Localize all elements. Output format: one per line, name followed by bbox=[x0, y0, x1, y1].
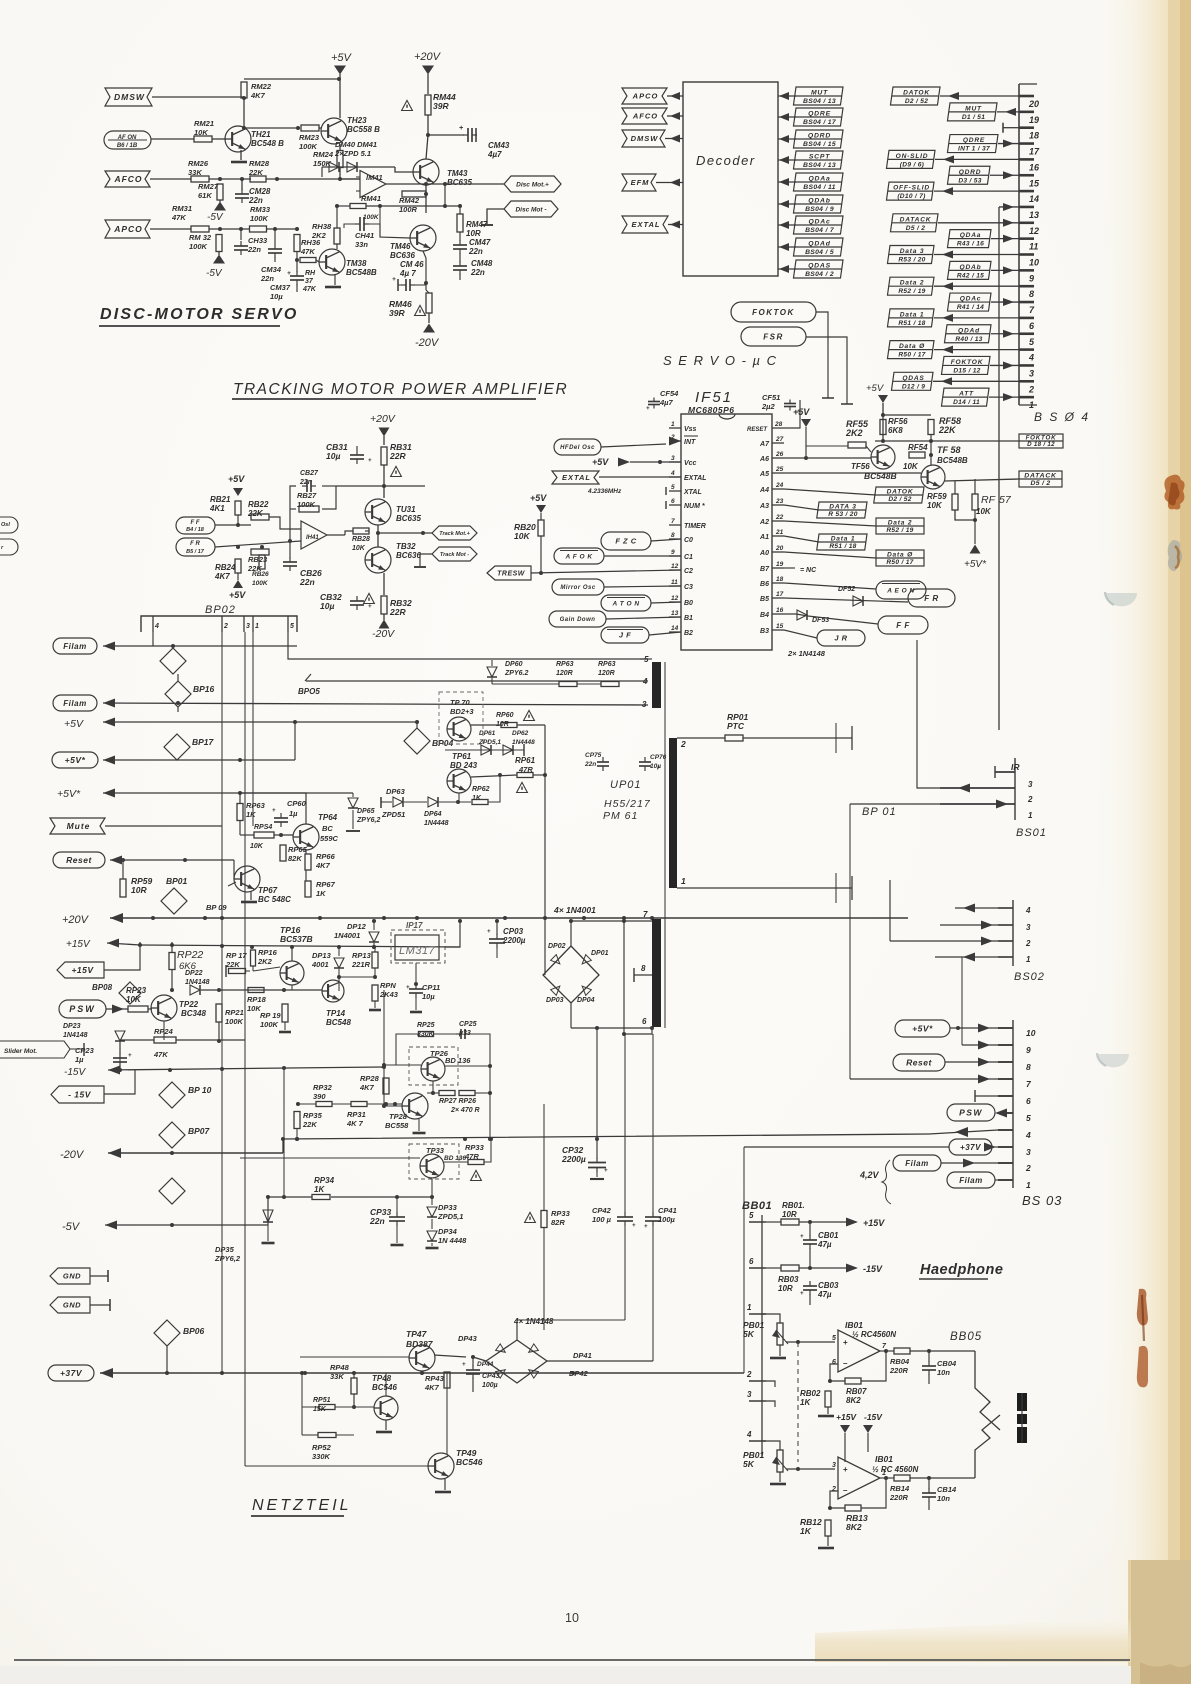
svg-text:2: 2 bbox=[223, 623, 228, 630]
svg-text:19: 19 bbox=[1029, 115, 1039, 125]
svg-text:+: + bbox=[487, 929, 491, 935]
svg-text:100K: 100K bbox=[297, 500, 316, 509]
wire decoder to QDAa bbox=[778, 181, 796, 183]
svg-text:RB14: RB14 bbox=[890, 1484, 910, 1493]
svg-text:DP12: DP12 bbox=[347, 922, 367, 931]
punch hole shadow upper bbox=[1106, 593, 1137, 606]
svg-text:BC636: BC636 bbox=[390, 251, 415, 260]
svg-text:B2: B2 bbox=[684, 630, 693, 637]
svg-text:+15V: +15V bbox=[836, 1412, 857, 1422]
svg-text:12: 12 bbox=[671, 563, 679, 570]
svg-text:1: 1 bbox=[1026, 955, 1031, 964]
wire DMSW to decoder bbox=[665, 138, 683, 140]
wires RF59 RF57 bbox=[954, 481, 956, 494]
svg-text:10K: 10K bbox=[976, 507, 992, 516]
svg-text:DATOK: DATOK bbox=[903, 90, 930, 97]
svg-text:TRESW: TRESW bbox=[497, 571, 526, 578]
svg-text:RM26: RM26 bbox=[188, 159, 209, 168]
svg-text:2K43: 2K43 bbox=[379, 990, 399, 999]
diode DP22 bbox=[190, 985, 200, 995]
opamp IB01 lower bbox=[838, 1457, 880, 1499]
svg-text:Filam: Filam bbox=[63, 642, 86, 651]
capacitor CM37 bbox=[290, 275, 304, 277]
svg-text:+5V: +5V bbox=[866, 383, 885, 394]
svg-text:47K: 47K bbox=[153, 1050, 168, 1059]
svg-text:1N4148: 1N4148 bbox=[185, 979, 210, 986]
label ATT D14 / 11 (BS04 pin) bbox=[941, 388, 989, 406]
svg-text:PM 61: PM 61 bbox=[603, 810, 638, 822]
svg-text:BP16: BP16 bbox=[193, 684, 215, 694]
svg-text:3: 3 bbox=[1028, 780, 1033, 789]
label QDAc R41 / 14 (BS04 pin) bbox=[947, 293, 991, 311]
resistor RM33 bbox=[250, 226, 267, 232]
svg-text:RB24: RB24 bbox=[215, 563, 236, 572]
svg-text:CF54: CF54 bbox=[660, 389, 679, 398]
svg-text:Decoder: Decoder bbox=[696, 153, 756, 168]
wire pin9 feeder bbox=[962, 1044, 998, 1046]
wire MUT to BS04 bbox=[997, 111, 1019, 113]
resistor RM23 bbox=[301, 125, 319, 131]
svg-text:BC635: BC635 bbox=[396, 514, 421, 523]
pin 6 NUM * IF51 bbox=[669, 504, 681, 506]
svg-text:33n: 33n bbox=[355, 240, 368, 249]
resistor RF55 bbox=[848, 442, 866, 448]
wire B6 to AEON bbox=[784, 583, 876, 589]
svg-text:2× 470 R: 2× 470 R bbox=[450, 1107, 480, 1114]
svg-text:C1: C1 bbox=[684, 554, 693, 561]
capacitor CP43 bbox=[466, 1369, 480, 1371]
svg-text:BC546: BC546 bbox=[372, 1383, 397, 1392]
pin B7 NC bbox=[784, 567, 795, 569]
flag +15V boxed bbox=[57, 962, 104, 978]
resistor RP52 bbox=[318, 1433, 336, 1438]
svg-text:RP22: RP22 bbox=[177, 949, 203, 961]
svg-text:4µ7: 4µ7 bbox=[487, 150, 502, 159]
svg-text:2: 2 bbox=[1025, 939, 1031, 948]
wire bridge top right loop bbox=[517, 1319, 625, 1321]
resistor RP19 bbox=[282, 1004, 288, 1022]
resistor RB12 bbox=[825, 1520, 831, 1536]
flag Disc Mot+ bbox=[504, 176, 561, 192]
wire PSW arrow bbox=[995, 1109, 1007, 1118]
svg-text:BC537B: BC537B bbox=[280, 934, 313, 944]
ground TP48 bbox=[385, 1420, 387, 1430]
label SCPT BS04 / 13 (decoder output) bbox=[793, 151, 843, 169]
svg-text:BP 09: BP 09 bbox=[206, 903, 227, 912]
wire BP02 pin2 down to +37V rail bbox=[221, 632, 223, 1373]
resistor RF58 bbox=[928, 420, 934, 435]
svg-text:RB02: RB02 bbox=[800, 1389, 821, 1398]
resistor RF59 bbox=[952, 494, 958, 510]
wire B4 to FF bbox=[784, 614, 878, 624]
svg-text:A6: A6 bbox=[759, 456, 769, 463]
svg-text:RP67: RP67 bbox=[316, 880, 336, 889]
transistor TP16 collector wire bbox=[291, 985, 293, 990]
svg-text:MC6805P6: MC6805P6 bbox=[688, 405, 735, 415]
svg-text:IF51: IF51 bbox=[695, 389, 733, 406]
tape residue upper bbox=[1164, 475, 1184, 510]
wire GND2 tie bbox=[90, 1304, 110, 1306]
transistor TP47 bbox=[409, 1345, 435, 1371]
power -20V (disc servo) bbox=[428, 313, 430, 323]
svg-text:BC636: BC636 bbox=[396, 551, 421, 560]
svg-text:TM43: TM43 bbox=[447, 169, 468, 178]
resistor RB14 bbox=[894, 1475, 910, 1481]
wire RM23 to TH23 base bbox=[319, 127, 321, 129]
svg-text:19: 19 bbox=[776, 561, 784, 568]
bottom scanner strip bbox=[0, 1666, 1191, 1684]
svg-text:4001: 4001 bbox=[311, 960, 329, 969]
wire +5V* row bbox=[103, 756, 115, 765]
svg-text:-5V: -5V bbox=[206, 268, 223, 279]
resistor RB21 bbox=[235, 501, 241, 515]
svg-text:1K: 1K bbox=[314, 1185, 325, 1194]
svg-text:6: 6 bbox=[1026, 1096, 1031, 1106]
svg-text:–: – bbox=[843, 1486, 848, 1495]
svg-text:RP51: RP51 bbox=[313, 1397, 331, 1404]
resistor RP61 bbox=[517, 773, 533, 778]
svg-text:CB03: CB03 bbox=[818, 1281, 839, 1290]
svg-text:7: 7 bbox=[671, 518, 675, 525]
capacitor CP33 bbox=[389, 1216, 405, 1218]
wire verticals right mid bbox=[889, 830, 891, 880]
svg-text:+5V*: +5V* bbox=[912, 1024, 933, 1034]
svg-text:2K2: 2K2 bbox=[311, 231, 327, 240]
resistor RP14 bbox=[372, 985, 378, 1001]
svg-text:4K7: 4K7 bbox=[424, 1383, 440, 1392]
wire opamp upper out bbox=[880, 1350, 894, 1352]
svg-text:4K7: 4K7 bbox=[250, 91, 266, 100]
wire AFCO rail bbox=[150, 178, 191, 180]
resistor RP34 bbox=[312, 1195, 330, 1200]
transistor TB32 bbox=[365, 547, 391, 573]
svg-text:RP63: RP63 bbox=[598, 661, 616, 668]
wire BS01 pin1 feeder bbox=[850, 803, 940, 805]
label MUT BS04 / 13 (decoder output) bbox=[793, 87, 843, 105]
svg-text:220R: 220R bbox=[889, 1366, 909, 1375]
svg-text:QDRE: QDRE bbox=[963, 137, 985, 144]
wire TP67 collector bbox=[222, 826, 247, 867]
label DATA3 R53/20 bbox=[817, 502, 867, 518]
wire to Disc Mot+ bbox=[445, 183, 504, 185]
pin 11 C3 IF51 bbox=[669, 585, 681, 587]
svg-text:B5: B5 bbox=[760, 596, 769, 603]
wire TP33 base bbox=[240, 1157, 420, 1159]
svg-text:R52 / 19: R52 / 19 bbox=[886, 527, 913, 534]
resistor RB22 bbox=[251, 514, 269, 520]
svg-text:Mute: Mute bbox=[67, 821, 91, 831]
pin 23 A3 IF51 bbox=[772, 504, 784, 506]
pin 6 BS03 bbox=[998, 1095, 1013, 1097]
capacitor CB14 bbox=[922, 1492, 936, 1494]
wire HFDel to INT bbox=[601, 444, 666, 447]
wire opamp out to motor node bbox=[386, 183, 445, 185]
svg-text:+5V*: +5V* bbox=[964, 559, 987, 570]
wire EXTAL pin bbox=[599, 476, 681, 478]
wire TF56 base from A6 bbox=[784, 457, 871, 459]
label Data0 R50/17 bbox=[876, 550, 924, 566]
svg-text:BS02: BS02 bbox=[1014, 971, 1045, 983]
label QDAb BS04 / 9 (decoder output) bbox=[793, 195, 843, 213]
ground TH21 emitter bbox=[240, 150, 242, 160]
resistor RP33 47R bbox=[468, 1160, 484, 1165]
svg-text:14: 14 bbox=[671, 625, 679, 632]
svg-text:100K: 100K bbox=[189, 242, 208, 251]
wire RF55 to base rail bbox=[806, 445, 848, 447]
svg-text:BP07: BP07 bbox=[188, 1126, 211, 1136]
pin 3 BS01 bbox=[995, 771, 1015, 773]
wire diode row to TM43 base bbox=[395, 167, 413, 172]
svg-text:2: 2 bbox=[831, 1486, 836, 1493]
pin 2 BS04 bbox=[1019, 380, 1034, 383]
pin 8 BS03 bbox=[998, 1061, 1013, 1063]
svg-text:A0: A0 bbox=[759, 550, 769, 557]
wire BP02 pin4 short bbox=[152, 632, 154, 646]
svg-text:+: + bbox=[644, 1224, 648, 1230]
pin 8 tie bbox=[634, 974, 652, 976]
svg-text:1K: 1K bbox=[316, 889, 326, 898]
vertical x384 bbox=[383, 990, 385, 1106]
resistor RM21 bbox=[194, 136, 212, 142]
svg-text:2K2: 2K2 bbox=[845, 428, 863, 438]
pin 12 B0 IF51 bbox=[669, 601, 681, 603]
wire FOKTOK right bbox=[816, 312, 828, 398]
resistor RP62b bbox=[601, 682, 619, 687]
svg-text:A7: A7 bbox=[759, 441, 770, 448]
svg-text:-5V: -5V bbox=[207, 212, 224, 223]
svg-text:+20V: +20V bbox=[62, 914, 90, 926]
svg-text:10µ: 10µ bbox=[422, 992, 435, 1001]
svg-text:ZPD51: ZPD51 bbox=[381, 810, 405, 819]
power +5V* (RF) bbox=[970, 545, 981, 554]
wire BP02 pin3 down to TP49 row bbox=[244, 632, 246, 1466]
svg-text:DP02: DP02 bbox=[548, 943, 566, 950]
svg-text:CB01: CB01 bbox=[818, 1231, 839, 1240]
label QDAb R42 / 15 (BS04 pin) bbox=[947, 261, 991, 279]
svg-text:R52 / 19: R52 / 19 bbox=[898, 288, 925, 295]
label Data 1 R51 / 18 (BS04 pin) bbox=[887, 309, 934, 327]
resistor RP51 bbox=[319, 1405, 335, 1410]
svg-text:Disc Mot.+: Disc Mot.+ bbox=[516, 181, 549, 188]
svg-text:10K: 10K bbox=[514, 531, 530, 541]
svg-text:F R: F R bbox=[190, 541, 200, 547]
svg-text:RPS4: RPS4 bbox=[254, 824, 272, 831]
label QDRD D3 / 53 (BS04 pin) bbox=[947, 166, 990, 184]
flag APCO (decoder input) bbox=[622, 88, 667, 104]
capacitor CP11 bbox=[409, 988, 423, 990]
svg-text:100µ: 100µ bbox=[482, 1382, 498, 1389]
svg-text:Data 2: Data 2 bbox=[888, 520, 913, 527]
flag +37V bbox=[48, 1365, 94, 1381]
svg-text:8: 8 bbox=[641, 964, 646, 973]
svg-text:1K: 1K bbox=[472, 795, 482, 802]
wire A2 to Data2 bbox=[784, 521, 876, 526]
wire A0 to Data0 bbox=[784, 552, 876, 558]
wire ON-SLID to BS04 bbox=[935, 158, 1019, 160]
svg-text:A4: A4 bbox=[759, 487, 769, 494]
wire OFF-SLID to BS04 bbox=[934, 190, 1019, 192]
diamond (unnamed, -5V row) bbox=[159, 1178, 185, 1204]
row RP32 RP31 bbox=[298, 1103, 316, 1105]
svg-text:11: 11 bbox=[671, 579, 678, 586]
svg-text:QDRD: QDRD bbox=[808, 133, 831, 140]
capacitor CP23 bbox=[113, 1057, 127, 1059]
capacitor CB04 bbox=[922, 1365, 936, 1367]
svg-text:Filam: Filam bbox=[959, 1176, 982, 1185]
svg-text:CP76: CP76 bbox=[650, 754, 667, 761]
svg-text:2µ2: 2µ2 bbox=[761, 402, 775, 411]
pin 3 BS02 bbox=[998, 924, 1013, 926]
svg-text:BC 548C: BC 548C bbox=[258, 895, 291, 904]
svg-text:QDAa: QDAa bbox=[808, 176, 830, 183]
wire QDAd to BS04 bbox=[991, 333, 1019, 335]
svg-text:XTAL: XTAL bbox=[683, 489, 702, 496]
overline INT pin bbox=[684, 435, 698, 437]
svg-text:CP41: CP41 bbox=[658, 1206, 677, 1215]
wire Data Ø to BS04 bbox=[934, 349, 1019, 351]
svg-text:1K: 1K bbox=[800, 1398, 811, 1407]
svg-text:RP33: RP33 bbox=[551, 1209, 571, 1218]
wires CB27 RB27 loop bbox=[290, 486, 296, 529]
wire Data 3 to BS04 bbox=[934, 254, 1019, 256]
svg-text:TU31: TU31 bbox=[396, 505, 416, 514]
svg-text:D2 / 52: D2 / 52 bbox=[888, 496, 911, 503]
oval Reset (BS03) bbox=[893, 1054, 945, 1071]
label Data 2 R52 / 19 (BS04 pin) bbox=[887, 277, 934, 295]
pin 10 BS03 bbox=[998, 1027, 1013, 1029]
pin 11 BS04 bbox=[1019, 237, 1034, 240]
svg-text:CF51: CF51 bbox=[762, 393, 780, 402]
svg-text:BC548B: BC548B bbox=[937, 456, 968, 465]
pin 9 C1 IF51 bbox=[669, 555, 681, 557]
svg-text:SCPT: SCPT bbox=[809, 154, 830, 161]
pin 8 C0 IF51 bbox=[669, 538, 681, 540]
vertical line right of bars bbox=[664, 662, 666, 1028]
label DATOK D2 / 52 (BS04 pin) bbox=[890, 87, 940, 105]
svg-text:100 µ: 100 µ bbox=[592, 1215, 612, 1224]
svg-text:2: 2 bbox=[1027, 795, 1033, 804]
svg-text:F F: F F bbox=[191, 520, 200, 526]
svg-text:Data Ø: Data Ø bbox=[899, 343, 925, 350]
svg-text:R53 / 20: R53 / 20 bbox=[898, 257, 925, 264]
flag AF ON B6/1B bbox=[104, 131, 151, 149]
wire RM37 to TH38 base bbox=[316, 260, 319, 262]
wire DP63 row bbox=[380, 797, 382, 808]
flag GND 2 bbox=[50, 1297, 90, 1313]
wire QDAc to BS04 bbox=[991, 301, 1019, 303]
svg-text:TB32: TB32 bbox=[396, 542, 416, 551]
pot PB01 upper bbox=[777, 1323, 783, 1345]
svg-text:22K: 22K bbox=[302, 1120, 317, 1129]
svg-text:RM24: RM24 bbox=[313, 150, 334, 159]
capacitor CF51 bbox=[784, 403, 796, 405]
pin 18 B6 IF51 bbox=[772, 582, 784, 584]
svg-text:RH: RH bbox=[305, 270, 316, 277]
svg-text:F Z C: F Z C bbox=[615, 537, 636, 546]
wire DATACK to BS04 bbox=[938, 222, 1019, 224]
svg-text:4µ 7: 4µ 7 bbox=[399, 269, 416, 278]
svg-text:47R: 47R bbox=[518, 765, 533, 774]
svg-text:DP44: DP44 bbox=[477, 1361, 494, 1368]
svg-text:B3: B3 bbox=[760, 628, 769, 635]
svg-text:100µ: 100µ bbox=[658, 1215, 676, 1224]
svg-text:2200µ: 2200µ bbox=[502, 936, 526, 945]
pin 26 A6 IF51 bbox=[772, 457, 784, 459]
svg-text:22K: 22K bbox=[248, 168, 263, 177]
svg-text:RP25: RP25 bbox=[417, 1022, 435, 1029]
svg-text:BD2+3: BD2+3 bbox=[450, 707, 474, 716]
svg-text:CM43: CM43 bbox=[488, 141, 510, 150]
svg-text:B7: B7 bbox=[760, 566, 770, 573]
svg-text:J R: J R bbox=[834, 634, 847, 643]
svg-text:24: 24 bbox=[775, 482, 784, 489]
pin 1 Vss IF51 bbox=[669, 427, 681, 429]
wire RP23 to TP22 bbox=[148, 1008, 152, 1010]
svg-text:100K: 100K bbox=[225, 1017, 244, 1026]
pin 2 BS02 bbox=[998, 940, 1013, 942]
pin 5 BB01 bbox=[749, 1221, 766, 1223]
svg-text:1: 1 bbox=[681, 876, 686, 886]
diode DP34 bbox=[427, 1231, 437, 1241]
connector UP01 bottom bar bbox=[652, 919, 661, 1027]
svg-text:100K: 100K bbox=[363, 214, 380, 221]
svg-text:47µ: 47µ bbox=[817, 1290, 832, 1299]
wire FOKTOK to BS04 bbox=[990, 364, 1019, 366]
feedback row RM41 bbox=[350, 204, 366, 209]
svg-text:3: 3 bbox=[747, 1390, 752, 1399]
wire FOKTOK row bbox=[875, 440, 1019, 442]
svg-text:10K: 10K bbox=[903, 462, 919, 471]
svg-text:(D9 / 6): (D9 / 6) bbox=[900, 161, 924, 168]
svg-text:QDRE: QDRE bbox=[808, 111, 831, 118]
pin 4 BS03 bbox=[998, 1129, 1013, 1131]
svg-text:BB01: BB01 bbox=[742, 1200, 772, 1212]
pin 12 BS04 bbox=[1019, 222, 1034, 225]
svg-text:TM38: TM38 bbox=[346, 259, 367, 268]
capacitor CB31 bbox=[350, 454, 364, 456]
wire FZC to C0 bbox=[651, 539, 681, 541]
svg-text:D1 / 51: D1 / 51 bbox=[962, 114, 985, 121]
wire out to jack bbox=[910, 1350, 975, 1352]
wire TP67 base bbox=[233, 878, 235, 880]
svg-text:10K: 10K bbox=[927, 501, 943, 510]
svg-text:100K: 100K bbox=[250, 214, 269, 223]
svg-text:BS04 / 9: BS04 / 9 bbox=[805, 206, 834, 213]
label Data Ø R50 / 17 (BS04 pin) bbox=[887, 341, 934, 359]
svg-text:2: 2 bbox=[1025, 1163, 1031, 1173]
svg-text:BS01: BS01 bbox=[1016, 827, 1047, 839]
svg-text:QDAd: QDAd bbox=[808, 241, 831, 248]
pin 1 BS04 bbox=[1019, 396, 1034, 399]
svg-text:22n: 22n bbox=[299, 479, 312, 486]
svg-text:DP33: DP33 bbox=[438, 1203, 458, 1212]
resistor RP22 bbox=[169, 953, 175, 970]
pin 16 B4 IF51 bbox=[772, 613, 784, 615]
wire B3 to JR bbox=[784, 630, 817, 638]
wire opamp lower out bbox=[880, 1477, 894, 1479]
svg-text:OFF-SLID: OFF-SLID bbox=[893, 185, 930, 192]
rail +15V inner dots bbox=[250, 945, 254, 949]
wire QDAa to BS04 bbox=[991, 238, 1019, 240]
pin 15 B3 IF51 bbox=[772, 629, 784, 631]
pin 5 BS03 bbox=[998, 1112, 1013, 1114]
svg-text:Mirror Osc: Mirror Osc bbox=[560, 585, 596, 591]
pin 3 BS04 bbox=[1019, 364, 1034, 367]
svg-text:BP 01: BP 01 bbox=[862, 806, 897, 818]
wire Data 1 to BS04 bbox=[934, 317, 1019, 319]
svg-text:BC548: BC548 bbox=[326, 1018, 351, 1027]
svg-text:RP63: RP63 bbox=[556, 661, 574, 668]
